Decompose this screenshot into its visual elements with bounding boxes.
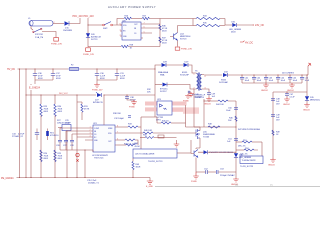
svg-text:DO214AC: DO214AC — [219, 81, 229, 84]
zener diode D35 — [305, 92, 320, 103]
wire cap bank bottom — [242, 82, 302, 84]
wire — [132, 18, 143, 20]
svg-text:24V_UNREG: 24V_UNREG — [282, 73, 294, 75]
wire — [166, 64, 183, 66]
net label E_GND — [29, 87, 41, 90]
diode D15 — [63, 21, 72, 32]
wire source — [196, 141, 200, 149]
resistor R35 — [193, 22, 225, 26]
gate resistor R40 — [117, 130, 194, 134]
svg-text:R38 20K: R38 20K — [113, 113, 121, 115]
svg-text:LED_GREEN: LED_GREEN — [239, 157, 252, 159]
capacitor C46b — [300, 75, 310, 84]
resistor R29 — [40, 95, 49, 178]
svg-text:E_GND24: E_GND24 — [29, 87, 41, 90]
svg-text:PGND: PGND — [129, 107, 135, 109]
title AUXILIARY POWER SUPPLY — [108, 5, 156, 9]
svg-text:300R: 300R — [136, 167, 141, 169]
net label 24V arrow — [308, 63, 311, 75]
svg-text:TSOT23-6: TSOT23-6 — [94, 158, 104, 160]
wire — [237, 24, 254, 26]
IC U21 — [91, 123, 117, 160]
capacitor C26 — [56, 128, 62, 150]
label cluster left of U21 — [57, 120, 71, 125]
svg-text:C32 100pF: C32 100pF — [114, 118, 125, 120]
svg-text:630V: 630V — [56, 78, 61, 80]
svg-text:TL431_SOT23: TL431_SOT23 — [240, 166, 254, 168]
resistor R28 — [88, 45, 160, 50]
svg-text:PGND_24V: PGND_24V — [181, 48, 192, 50]
svg-text:2200pF: 2200pF — [195, 97, 203, 99]
capacitor C39 and ground — [204, 89, 216, 106]
thermistor NTC — [31, 26, 43, 39]
resistor R49 labels — [272, 130, 281, 136]
wire vertical L line — [19, 69, 21, 177]
power ground PGND_24V — [51, 38, 62, 46]
LED D31 — [229, 22, 242, 34]
svg-text:SOT23: SOT23 — [91, 39, 98, 41]
wire — [69, 18, 80, 24]
resistor R45 — [157, 117, 186, 124]
svg-text:2200pF 250VAC: 2200pF 250VAC — [220, 174, 235, 177]
resistor R46 — [228, 116, 237, 122]
net text R47 — [238, 128, 260, 131]
net label PFC_24V — [73, 15, 84, 18]
diode D36 — [198, 150, 236, 154]
fuse F2 — [69, 65, 79, 71]
capacitor bank C41-C46 — [240, 75, 250, 84]
svg-text:HV_DC: HV_DC — [245, 41, 253, 44]
test point TP1 — [76, 153, 79, 161]
svg-text:2: 2 — [120, 35, 121, 37]
diode D32 — [219, 72, 229, 85]
svg-text:10nF: 10nF — [226, 110, 231, 112]
svg-text:R47 WSL2512R010FEA: R47 WSL2512R010FEA — [238, 128, 260, 131]
wire — [53, 23, 64, 25]
wire zener row feed — [273, 75, 307, 92]
capacitor C36 — [33, 69, 44, 81]
svg-text:250VAC_Y1: 250VAC_Y1 — [88, 182, 100, 185]
capacitor C44 — [276, 75, 286, 84]
wire earth line — [30, 84, 32, 178]
wire emitter — [195, 158, 197, 173]
transistor Q16 — [191, 140, 198, 158]
wire — [113, 19, 125, 26]
resistor R41 — [117, 139, 138, 146]
svg-text:4: 4 — [120, 30, 121, 32]
wire U21 bottom to rail — [84, 150, 86, 178]
svg-text:1N4148W SOD123 BAS16: 1N4148W SOD123 BAS16 — [209, 151, 234, 154]
wire U21 vcc — [103, 95, 105, 125]
pin numbers U20 — [120, 23, 145, 37]
wire — [225, 24, 232, 26]
svg-text:AUXILIARY POWER SUPPLY: AUXILIARY POWER SUPPLY — [108, 5, 156, 9]
svg-text:PGND_24V: PGND_24V — [92, 90, 103, 92]
capacitor C48 labels — [271, 99, 281, 106]
capacitor C27 — [63, 131, 68, 150]
shunt regulator U25 — [133, 117, 191, 163]
svg-text:1N4148W: 1N4148W — [63, 30, 72, 32]
ground main — [146, 180, 153, 188]
ground — [303, 103, 311, 112]
svg-text:TO263: TO263 — [203, 137, 210, 139]
capacitor C34 X2 — [12, 129, 39, 141]
resistor R36 — [159, 25, 168, 33]
svg-text:PFC_24V: PFC_24V — [73, 15, 84, 18]
svg-text:49.9K: 49.9K — [135, 146, 141, 148]
svg-text:GND24: GND24 — [268, 165, 276, 167]
resistor R27 — [142, 16, 149, 20]
capacitor C30 — [95, 69, 106, 81]
switch SW2 — [103, 22, 113, 30]
net label PGND_24V — [175, 47, 192, 50]
wire mid bus — [26, 94, 155, 96]
svg-text:OUT: OUT — [134, 24, 138, 26]
svg-text:GND24: GND24 — [283, 104, 291, 106]
svg-text:BZX84C15: BZX84C15 — [93, 102, 104, 104]
svg-text:SOT23: SOT23 — [180, 39, 187, 41]
resistor R31 vertical — [77, 95, 90, 178]
pin numbers U21 — [90, 126, 119, 141]
wire vertical N line — [25, 69, 27, 177]
resistor R48 — [208, 124, 220, 129]
wire U21 left pins — [60, 128, 91, 140]
regulator U24 TL431 — [236, 140, 263, 168]
ground — [92, 83, 103, 92]
capacitor C51 — [227, 139, 238, 144]
wire secondary out — [204, 74, 222, 76]
svg-text:2.5A_TM: 2.5A_TM — [35, 36, 43, 39]
resistor R30 — [54, 95, 63, 178]
ground — [268, 158, 276, 167]
svg-text:stat: stat — [235, 184, 239, 187]
wire — [228, 101, 236, 152]
svg-text:PGND: PGND — [191, 181, 197, 183]
net name 24V_UNREG — [282, 73, 294, 75]
wire — [150, 18, 194, 20]
resistor R44 — [216, 100, 228, 106]
svg-text:SOD123F: SOD123F — [180, 75, 190, 77]
transformer T6 — [192, 71, 206, 100]
capacitor C46 — [285, 92, 295, 99]
svg-text:4: 4 — [205, 76, 206, 78]
svg-text:GND24: GND24 — [287, 90, 295, 92]
svg-text:8: 8 — [120, 24, 121, 26]
small box C33 — [58, 123, 71, 178]
wire — [143, 19, 160, 47]
svg-text:U25 TLV431ACDBVR: U25 TLV431ACDBVR — [135, 153, 155, 156]
svg-text:VREF: VREF — [108, 128, 113, 130]
svg-text:275VAC_X2: 275VAC_X2 — [12, 135, 24, 138]
diode D28 — [158, 62, 169, 77]
zener diode D27 — [93, 92, 104, 104]
wire — [97, 80, 117, 83]
resistor R38 cluster — [113, 113, 131, 120]
wire fb mid — [204, 126, 236, 128]
IC U20 — [120, 21, 143, 41]
ground — [129, 100, 137, 109]
svg-text:10uF: 10uF — [281, 80, 286, 82]
svg-text:GND24: GND24 — [204, 104, 212, 106]
svg-text:SOD57: SOD57 — [160, 91, 167, 93]
svg-text:R40 10R: R40 10R — [144, 130, 152, 132]
wire HV rail — [18, 68, 156, 70]
inductor L5 — [28, 18, 55, 26]
capacitor C52 — [196, 169, 216, 175]
svg-text:PE_GND24: PE_GND24 — [1, 177, 14, 180]
svg-text:SMA: SMA — [160, 74, 165, 77]
resistor R26 — [124, 16, 131, 20]
svg-text:49.9K: 49.9K — [84, 109, 90, 111]
capacitor C49 labels — [271, 115, 281, 122]
wire rail corner down — [154, 69, 156, 117]
capacitor C43 — [264, 75, 274, 84]
svg-text:OUT: OUT — [108, 141, 112, 143]
resistor R43 — [117, 143, 141, 177]
capacitor C28 — [70, 134, 75, 150]
capacitor C37 — [51, 69, 62, 81]
ground — [174, 140, 180, 147]
resistor R33 — [117, 124, 141, 129]
zener diode D26 — [86, 33, 102, 41]
diode D29 — [180, 62, 190, 77]
svg-text:E_GND: E_GND — [146, 186, 153, 188]
mosfet Q15 — [194, 127, 216, 141]
svg-text:GND24: GND24 — [303, 110, 311, 112]
ground — [287, 83, 295, 92]
wire — [88, 24, 103, 26]
svg-text:24V_OK: 24V_OK — [255, 24, 264, 27]
svg-text:PGND_24V: PGND_24V — [51, 43, 62, 45]
svg-text:471KD10: 471KD10 — [50, 135, 59, 137]
svg-text:R44 10K: R44 10K — [216, 104, 224, 106]
svg-text:SMAJ400A: SMAJ400A — [158, 71, 169, 74]
capacitor C31 — [115, 69, 126, 81]
wire drain — [194, 89, 200, 127]
svg-text:10uF: 10uF — [257, 80, 262, 82]
wire — [188, 65, 194, 73]
ground — [191, 172, 199, 183]
resistor R24 lower — [40, 150, 49, 162]
varistor RV1 — [46, 129, 59, 141]
capacitor C45 — [288, 75, 298, 84]
svg-text:630V: 630V — [120, 78, 125, 80]
ground — [283, 98, 291, 107]
wire fb top — [204, 100, 218, 102]
svg-text:COMP: COMP — [94, 128, 100, 130]
sheet border — [155, 184, 320, 187]
wire — [60, 150, 93, 152]
svg-text:470pF: 470pF — [65, 123, 71, 125]
svg-text:1: 1 — [194, 74, 195, 76]
svg-text:GND24: GND24 — [261, 90, 269, 92]
svg-text:10uF: 10uF — [245, 80, 250, 82]
capacitor C39 snubber — [188, 91, 191, 93]
resistor R37 — [159, 37, 168, 45]
svg-text:TL431ACDBZR: TL431ACDBZR — [242, 159, 256, 162]
optocoupler U23 — [145, 99, 199, 122]
svg-text:10uF: 10uF — [269, 80, 274, 82]
power ground PGND_24V — [83, 48, 94, 56]
net label PFC_24V (2) — [84, 15, 95, 18]
capacitor C42 — [252, 75, 262, 84]
resistor R34 — [193, 15, 225, 25]
transistor Q14 — [170, 26, 193, 47]
wire opto out — [186, 105, 205, 127]
ground — [261, 83, 269, 92]
capacitor C50 — [226, 108, 238, 113]
svg-text:10uF: 10uF — [293, 80, 298, 82]
resistor R32 label — [147, 89, 152, 94]
ground C40 — [188, 92, 202, 99]
net label 24V_OK — [255, 24, 264, 27]
wire — [35, 80, 53, 84]
net label 24V_VCC — [59, 93, 68, 95]
ground — [231, 178, 239, 186]
wire to snubber row — [155, 65, 161, 69]
text below rail — [87, 180, 100, 185]
wire — [42, 32, 56, 38]
net label HV_DC — [7, 68, 15, 71]
wire bottom rail — [1, 177, 150, 180]
capacitor C38 — [125, 95, 136, 102]
svg-text:24V_VCC: 24V_VCC — [59, 93, 68, 95]
wire — [87, 18, 89, 47]
net label HV_DC flag — [240, 41, 253, 45]
resistor R25 lower — [54, 150, 63, 162]
svg-text:HV_DC: HV_DC — [7, 68, 15, 71]
diode D30 — [155, 83, 194, 94]
capacitor C53 — [216, 169, 236, 178]
wire feedback column — [272, 92, 274, 158]
svg-text:PFC_24V: PFC_24V — [84, 15, 95, 18]
svg-text:0.1uF: 0.1uF — [290, 97, 296, 99]
wire 24V rail — [228, 74, 309, 76]
wire mid link — [141, 116, 157, 118]
svg-text:PGND_24V: PGND_24V — [83, 54, 94, 56]
svg-text:rev: rev — [270, 185, 273, 187]
svg-text:MMSZ5252B: MMSZ5252B — [310, 100, 320, 102]
ground — [183, 94, 191, 103]
svg-text:TLV431_SOT23: TLV431_SOT23 — [148, 161, 163, 163]
diode D37 — [234, 152, 252, 178]
